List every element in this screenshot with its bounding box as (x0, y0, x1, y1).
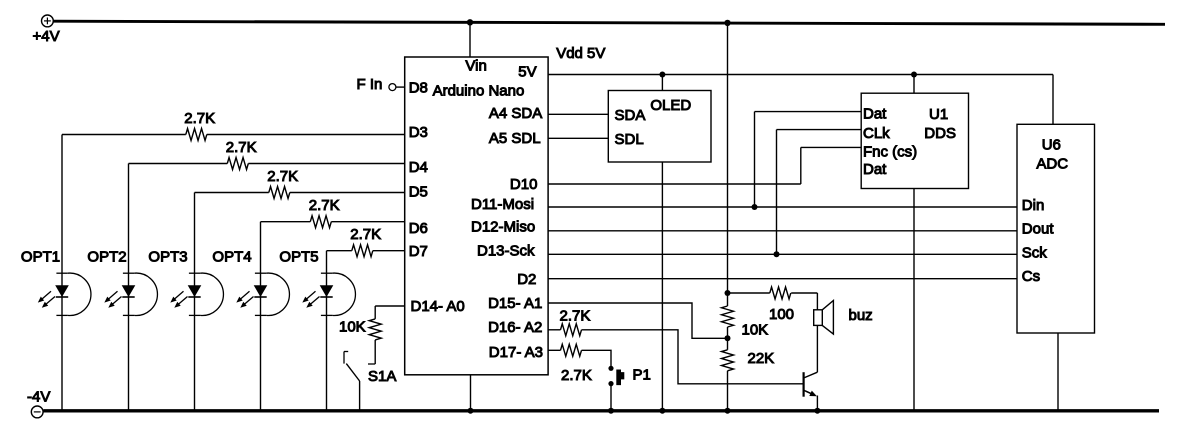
svg-text:D14- A0: D14- A0 (411, 298, 465, 315)
svg-text:F In: F In (357, 76, 383, 93)
svg-text:OPT5: OPT5 (279, 249, 318, 266)
svg-text:10K: 10K (339, 319, 366, 336)
svg-text:D2: D2 (517, 271, 536, 288)
svg-text:D7: D7 (409, 243, 428, 260)
svg-text:U1: U1 (929, 106, 948, 123)
svg-text:buz: buz (849, 307, 873, 324)
svg-text:DDS: DDS (924, 125, 956, 142)
svg-text:A5 SDL: A5 SDL (489, 130, 541, 147)
svg-text:2.7K: 2.7K (561, 367, 592, 384)
svg-text:D5: D5 (409, 184, 428, 201)
svg-text:22K: 22K (748, 350, 775, 367)
svg-text:OPT4: OPT4 (212, 249, 251, 266)
svg-text:Dat: Dat (863, 105, 887, 122)
svg-text:Dat: Dat (863, 161, 887, 178)
svg-text:2.7K: 2.7K (267, 168, 298, 185)
svg-text:100: 100 (769, 306, 794, 323)
svg-text:Cs: Cs (1022, 268, 1040, 285)
svg-text:Din: Din (1022, 197, 1045, 214)
svg-text:2.7K: 2.7K (560, 308, 591, 325)
svg-text:Sck: Sck (1022, 244, 1048, 261)
svg-text:CLk: CLk (863, 125, 890, 142)
svg-text:D15- A1: D15- A1 (488, 295, 542, 312)
svg-text:D4: D4 (409, 159, 428, 176)
svg-text:D13-Sck: D13-Sck (477, 243, 535, 260)
svg-text:OPT1: OPT1 (21, 249, 60, 266)
svg-text:+4V: +4V (33, 28, 60, 45)
svg-text:D17- A3: D17- A3 (489, 344, 543, 361)
svg-text:A4 SDA: A4 SDA (489, 105, 542, 122)
svg-text:ADC: ADC (1036, 156, 1068, 173)
svg-text:S1A: S1A (368, 368, 396, 385)
svg-text:D8: D8 (409, 80, 428, 97)
svg-text:OLED: OLED (650, 97, 691, 114)
svg-text:D6: D6 (409, 220, 428, 237)
svg-text:10K: 10K (742, 322, 769, 339)
svg-text:D11-Mosi: D11-Mosi (471, 196, 534, 213)
svg-text:-4V: -4V (27, 389, 50, 406)
svg-text:SDL: SDL (615, 131, 644, 148)
svg-text:OPT2: OPT2 (87, 249, 126, 266)
svg-text:SDA: SDA (615, 107, 646, 124)
svg-text:D3: D3 (409, 124, 428, 141)
svg-text:Dout: Dout (1022, 220, 1055, 237)
svg-text:Fnc (cs): Fnc (cs) (863, 144, 917, 161)
svg-text:D16- A2: D16- A2 (488, 319, 542, 336)
svg-text:Vdd 5V: Vdd 5V (556, 45, 605, 62)
svg-text:U6: U6 (1042, 137, 1061, 154)
svg-text:D10: D10 (510, 176, 538, 193)
svg-text:2.7K: 2.7K (184, 110, 215, 127)
svg-text:OPT3: OPT3 (148, 249, 187, 266)
svg-text:D12-Miso: D12-Miso (471, 219, 535, 236)
svg-text:Vin: Vin (465, 58, 486, 75)
svg-text:Arduino Nano: Arduino Nano (433, 82, 525, 99)
svg-text:2.7K: 2.7K (350, 226, 381, 243)
svg-text:P1: P1 (633, 367, 651, 384)
svg-text:2.7K: 2.7K (226, 139, 257, 156)
svg-text:5V: 5V (518, 64, 536, 81)
svg-text:2.7K: 2.7K (309, 197, 340, 214)
